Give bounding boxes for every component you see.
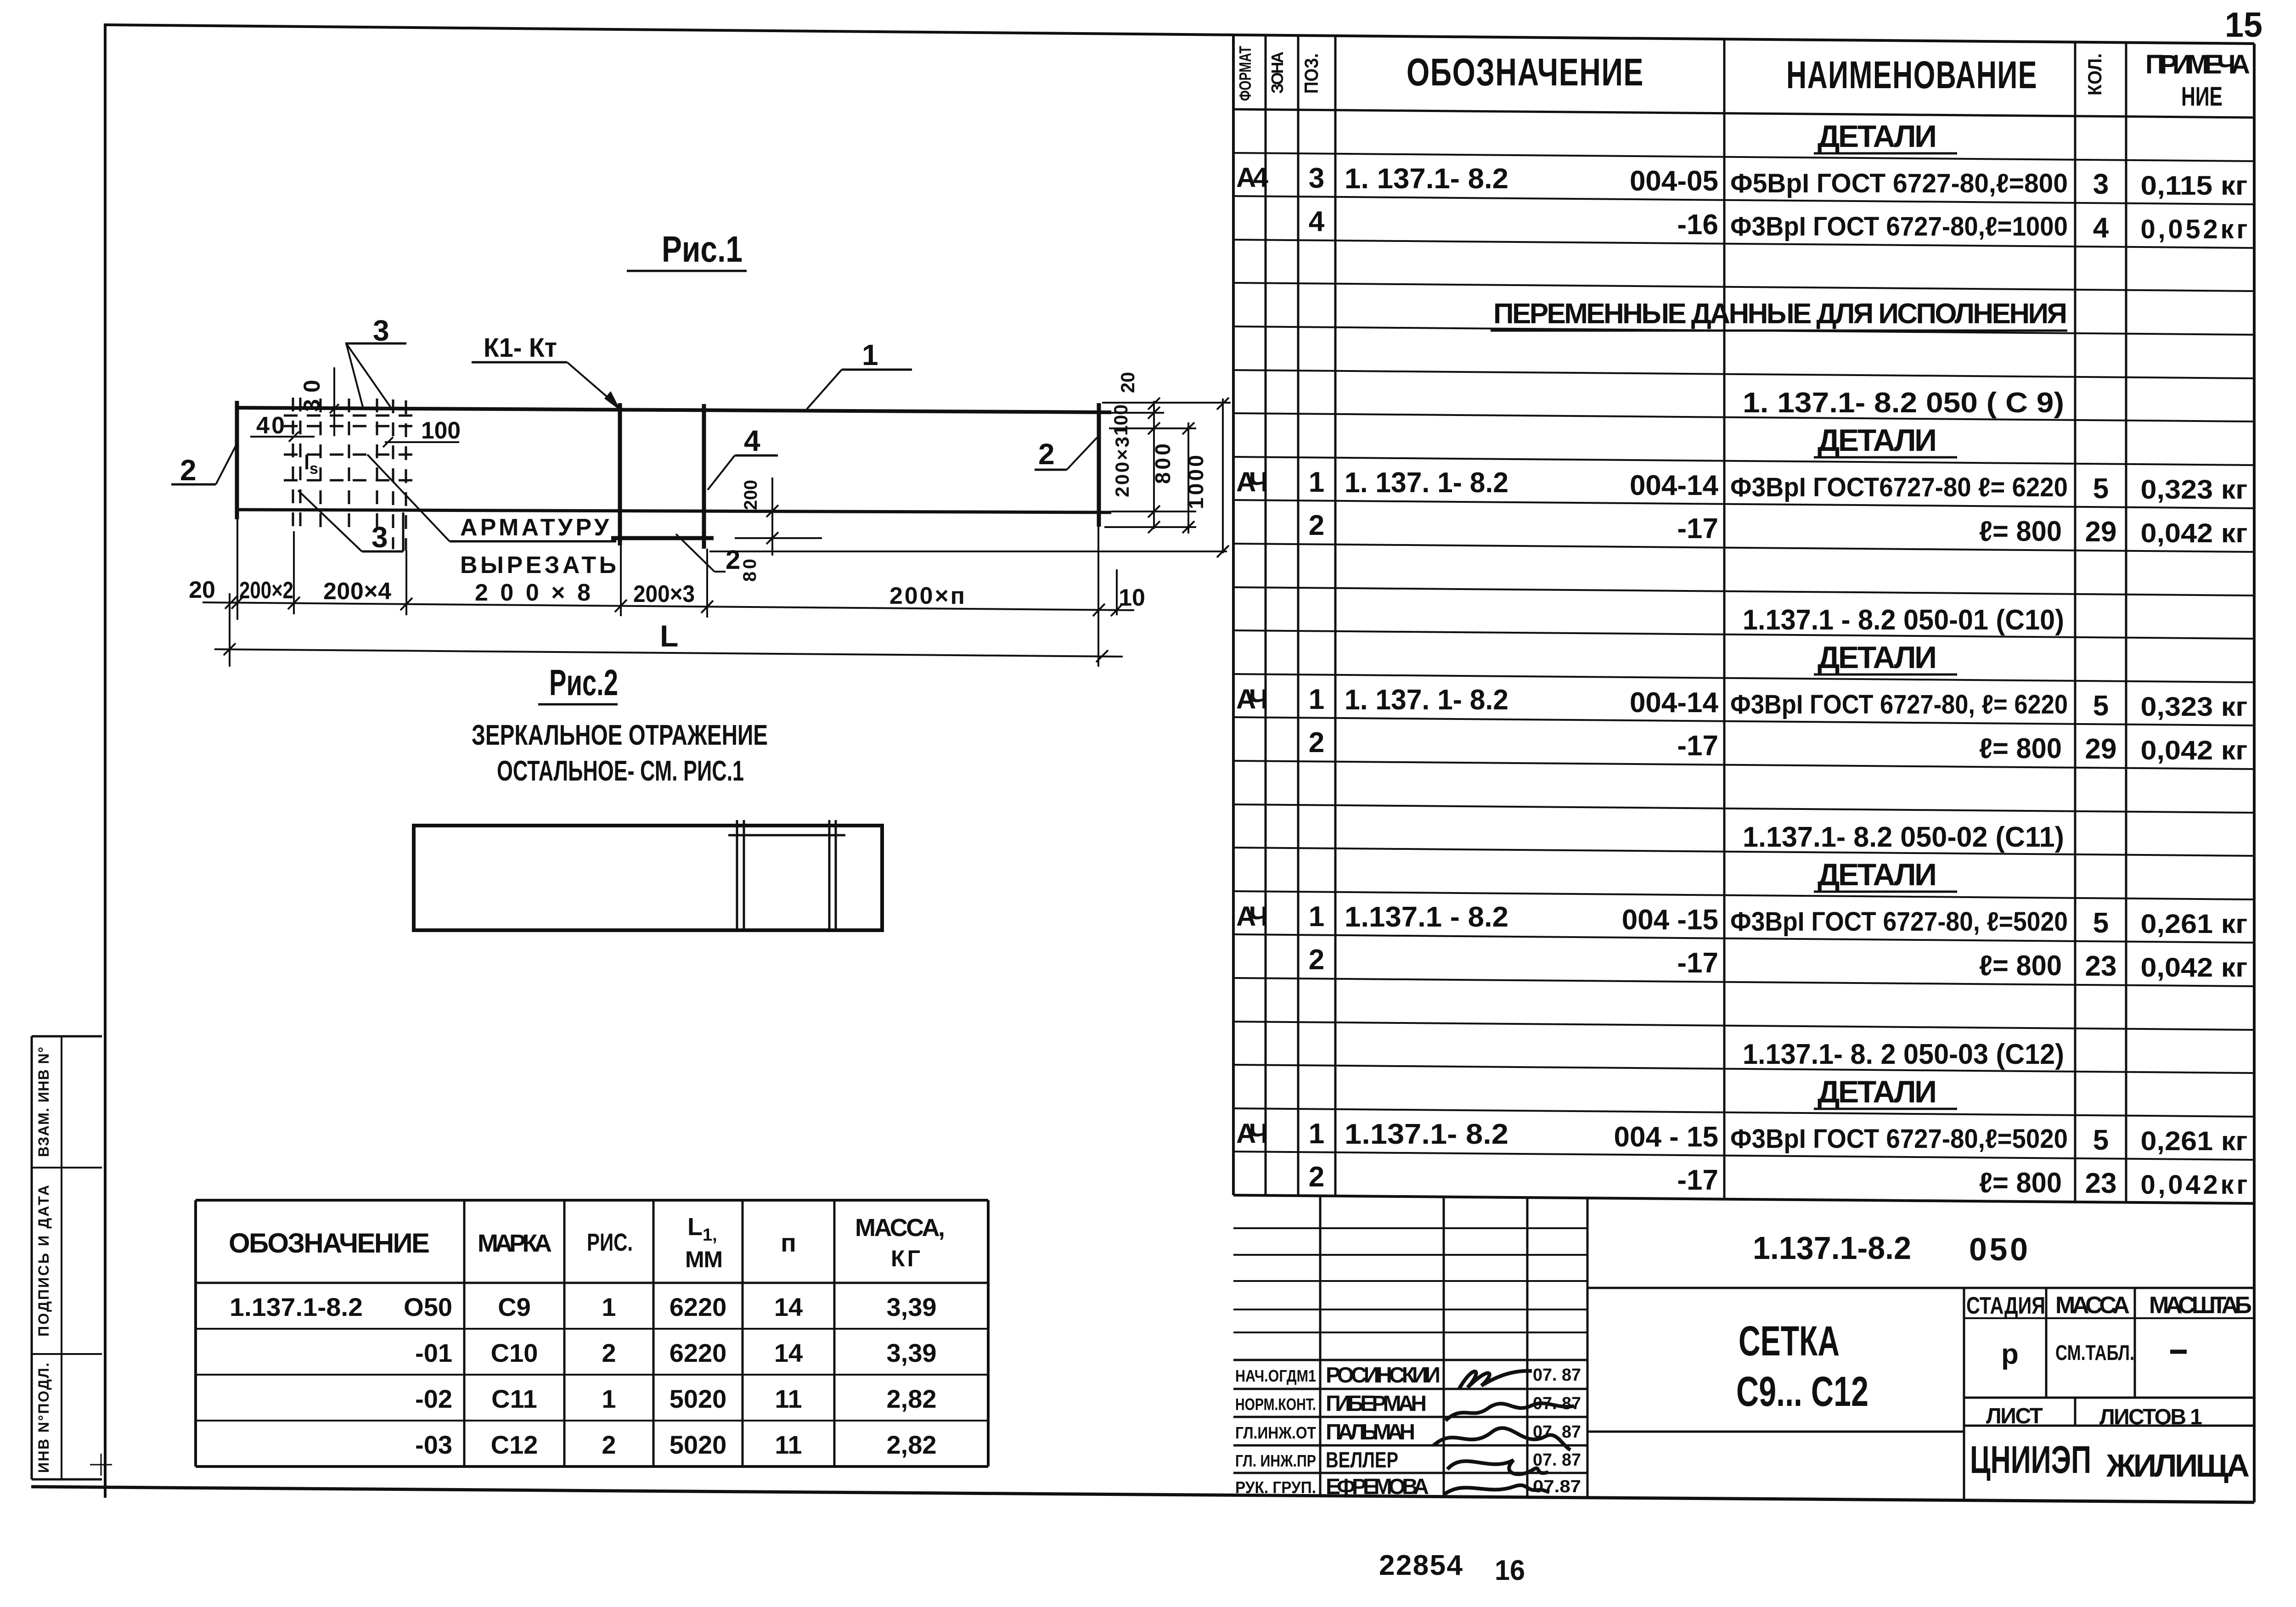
svg-text:ЗЕРКАЛЬНОЕ ОТРАЖЕНИЕ: ЗЕРКАЛЬНОЕ ОТРАЖЕНИЕ [472, 719, 768, 751]
left transverse wire (pos 2) [235, 401, 239, 519]
title block signature row rule [1233, 1388, 1587, 1390]
extension lines down to chain [229, 593, 231, 667]
svg-text:11: 11 [775, 1384, 802, 1413]
svg-text:100: 100 [421, 417, 461, 444]
svg-text:1.137.1-8.2: 1.137.1-8.2 [230, 1292, 363, 1321]
spec table row rule 7 [1233, 413, 2254, 421]
Рис.2 transverse wire pair 1 [736, 820, 738, 929]
title block upper row rule [1233, 1332, 1587, 1333]
Лист / Листов row [2074, 1398, 2077, 1426]
Стадия Масса Масштаб band [2045, 1288, 2048, 1398]
spec table row rule 2 [1233, 196, 2254, 204]
svg-text:2: 2 [1309, 727, 1324, 759]
svg-text:200: 200 [741, 480, 761, 510]
svg-text:2: 2 [180, 454, 197, 487]
spec table column rule x=4909 [2253, 44, 2256, 1502]
spec table row rule 24 [1233, 1152, 2254, 1160]
svg-text:2: 2 [1309, 1161, 1324, 1193]
svg-text:23: 23 [2085, 1168, 2117, 1199]
svg-text:40: 40 [256, 412, 285, 439]
svg-text:ВЕЛЛЕР: ВЕЛЛЕР [1326, 1448, 1398, 1472]
transverse wire K1 (middle) [618, 403, 622, 545]
svg-text:1: 1 [1309, 1118, 1324, 1150]
spec table row rule 5 [1233, 326, 2254, 335]
svg-text:АЧ: АЧ [1236, 901, 1268, 932]
svg-text:0,042 кг: 0,042 кг [2141, 736, 2248, 765]
svg-text:АЧ: АЧ [1236, 466, 1268, 497]
registration cross mark [90, 1464, 112, 1466]
spec table row rule 1 [1233, 153, 2254, 161]
svg-text:1: 1 [602, 1292, 616, 1321]
svg-text:ПАЛЬМАН: ПАЛЬМАН [1326, 1420, 1415, 1444]
svg-text:23: 23 [2085, 950, 2117, 982]
svg-text:20: 20 [1117, 372, 1138, 393]
svg-text:ПРИМЕЧА: ПРИМЕЧА [2145, 50, 2250, 79]
svg-text:ЛИСТОВ 1: ЛИСТОВ 1 [2099, 1405, 2202, 1429]
param table row rule [196, 1420, 988, 1422]
svg-text:1,: 1, [703, 1225, 717, 1245]
cut-out vertical wire x=821 [376, 399, 378, 529]
Рис.2 cut longitudinal bar [728, 834, 845, 837]
spec table row rule 11 [1233, 587, 2254, 596]
spec table column rule x=2686 [1232, 35, 1235, 1195]
svg-text:НАЧ.ОГДМ1: НАЧ.ОГДМ1 [1235, 1366, 1316, 1385]
spec table row rule 3 [1233, 240, 2254, 248]
transverse wire pos 4 [702, 404, 706, 549]
spec table row rule 22 [1233, 1065, 2254, 1073]
svg-text:050: 050 [1969, 1231, 2028, 1267]
svg-text:200×3: 200×3 [1111, 437, 1133, 497]
svg-text:200×3: 200×3 [633, 581, 695, 607]
right vertical dimension chain 20/100/800/80 [1153, 401, 1155, 529]
svg-text:3: 3 [373, 314, 389, 347]
svg-text:4: 4 [1309, 206, 1325, 237]
title block column x=3457 [1587, 1198, 1589, 1498]
spec table column rule x=2756 [1265, 35, 1267, 1196]
stamp strip divider 2 [32, 1353, 102, 1355]
svg-text:ОСТАЛЬНОЕ- СМ. РИС.1: ОСТАЛЬНОЕ- СМ. РИС.1 [497, 755, 744, 787]
svg-text:5: 5 [2093, 473, 2109, 505]
svg-text:0,042кг: 0,042кг [2141, 1170, 2248, 1200]
cut-out vertical wire x=638 [292, 398, 294, 533]
spec table column rule x=2908 [1334, 36, 1337, 1196]
param table bottom [196, 1465, 988, 1468]
cut-out vertical wire x=884 [405, 400, 407, 551]
spec table column rule x=4519 [2074, 42, 2077, 1202]
svg-text:С9: С9 [498, 1292, 531, 1321]
svg-text:1.137.1- 8.2 050-02 (С11): 1.137.1- 8.2 050-02 (С11) [1743, 821, 2064, 853]
title block upper row rule [1233, 1254, 1587, 1256]
svg-text:20: 20 [189, 577, 215, 603]
mesh top longitudinal wire (pos 1) [237, 408, 1111, 412]
spec table row rule 19 [1233, 934, 2254, 943]
svg-text:1. 137.1- 8.2 050 ( С 9): 1. 137.1- 8.2 050 ( С 9) [1743, 387, 2064, 419]
spec table header bottom rule [1233, 109, 2254, 118]
svg-text:Рис.1: Рис.1 [662, 229, 743, 270]
svg-text:-16: -16 [1677, 209, 1718, 241]
svg-text:5: 5 [2093, 907, 2109, 939]
svg-text:ЗОНА: ЗОНА [1268, 51, 1287, 94]
param table row rule [196, 1328, 988, 1330]
svg-text:ВЫРЕЗАТЬ: ВЫРЕЗАТЬ [460, 552, 616, 579]
title block signature row rule [1233, 1444, 1587, 1447]
small vertical dimension line 200/80 [771, 478, 773, 556]
svg-text:р: р [2001, 1338, 2019, 1370]
svg-text:ММ: ММ [685, 1247, 723, 1272]
svg-text:РОСИНСКИИ: РОСИНСКИИ [1326, 1363, 1441, 1388]
right dimension extension lines [1102, 402, 1231, 404]
svg-text:ГЛ.ИНЖ.ОТ: ГЛ.ИНЖ.ОТ [1235, 1423, 1316, 1442]
param table column x=426 [194, 1200, 197, 1467]
svg-text:004 -15: 004 -15 [1622, 904, 1718, 936]
svg-text:ℓ= 800: ℓ= 800 [1979, 516, 2062, 547]
svg-text:3: 3 [1309, 163, 1324, 194]
svg-text:ГЛ. ИНЖ.ПР: ГЛ. ИНЖ.ПР [1235, 1451, 1316, 1470]
Рис.2 mesh outline [414, 826, 882, 930]
svg-text:-02: -02 [415, 1384, 452, 1413]
svg-text:1.137.1 - 8.2 050-01 (С10): 1.137.1 - 8.2 050-01 (С10) [1743, 604, 2064, 636]
svg-text:С10: С10 [491, 1338, 538, 1367]
value dash (масштаб) [2170, 1350, 2187, 1354]
svg-text:1.137.1- 8. 2 050-03 (С12): 1.137.1- 8. 2 050-03 (С12) [1743, 1039, 2064, 1070]
svg-text:Ф3ВрI ГОСТ 6727-80,ℓ=5020: Ф3ВрI ГОСТ 6727-80,ℓ=5020 [1730, 1124, 2068, 1154]
title block signature rows top [1233, 1359, 1587, 1361]
svg-text:30: 30 [299, 373, 325, 412]
svg-text:15: 15 [2225, 6, 2262, 45]
right vertical dimension 1000 [1222, 399, 1224, 553]
svg-text:0,052кг: 0,052кг [2141, 214, 2248, 244]
sheet frame bottom border [31, 1487, 2254, 1502]
svg-text:22854: 22854 [1379, 1550, 1463, 1581]
title block column x=3144 [1443, 1197, 1445, 1497]
cut-out horizontal wire y=990 [284, 454, 413, 456]
svg-text:5: 5 [2093, 1124, 2109, 1156]
left stamp strip box [31, 1036, 33, 1479]
sheet frame left border [104, 25, 107, 1498]
svg-text:-17: -17 [1677, 513, 1718, 545]
svg-text:07. 87: 07. 87 [1533, 1450, 1581, 1470]
cut-out horizontal wire y=1046 [284, 479, 413, 482]
svg-text:ДЕТАЛИ: ДЕТАЛИ [1818, 640, 1939, 675]
svg-text:С9... С12: С9... С12 [1736, 1368, 1868, 1415]
param table column x=1617 [742, 1200, 744, 1467]
svg-text:РУК. ГРУП.: РУК. ГРУП. [1235, 1478, 1316, 1497]
spec table row rule 12 [1233, 630, 2254, 639]
cut-out vertical wire x=760 [348, 399, 350, 528]
param table column x=1817 [833, 1200, 836, 1467]
svg-text:ЖИЛИЩА: ЖИЛИЩА [2106, 1448, 2250, 1483]
svg-text:К1- Кт: К1- Кт [484, 333, 557, 363]
svg-text:L: L [660, 619, 678, 653]
svg-text:1: 1 [1309, 684, 1324, 715]
Сетка cell bottom rule [1587, 1431, 1964, 1433]
svg-text:ЛИСТ: ЛИСТ [1986, 1404, 2043, 1428]
handwritten signatures [1459, 1371, 1532, 1388]
param table row rule [196, 1374, 988, 1376]
svg-text:ПЕРЕМЕННЫЕ ДАННЫЕ ДЛЯ ИСПОЛ: ПЕРЕМЕННЫЕ ДАННЫЕ ДЛЯ ИСПОЛНЕНИЯ [1493, 298, 2067, 330]
cut-out vertical wire x=856 [392, 399, 394, 549]
svg-text:0,323 кг: 0,323 кг [2141, 692, 2248, 722]
svg-text:2: 2 [1309, 944, 1324, 976]
svg-text:А4: А4 [1236, 162, 1269, 193]
spec table row rule 23 [1233, 1108, 2254, 1117]
svg-text:14: 14 [774, 1338, 803, 1367]
svg-text:ВЗАМ. ИНВ N°: ВЗАМ. ИНВ N° [35, 1047, 52, 1157]
svg-text:ДЕТАЛИ: ДЕТАЛИ [1818, 423, 1939, 458]
title block column x=3326 [1526, 1197, 1529, 1497]
svg-text:1. 137.1- 8.2: 1. 137.1- 8.2 [1345, 163, 1508, 195]
svg-text:29: 29 [2085, 516, 2117, 548]
svg-text:5: 5 [2093, 690, 2109, 722]
svg-text:ДЕТАЛИ: ДЕТАЛИ [1818, 857, 1939, 892]
svg-text:-17: -17 [1677, 1164, 1718, 1196]
svg-text:-17: -17 [1677, 730, 1718, 762]
svg-text:СТАДИЯ: СТАДИЯ [1966, 1292, 2045, 1319]
svg-text:МАССА: МАССА [2055, 1292, 2130, 1319]
Рис.2 transverse wire pair 2 [828, 820, 831, 929]
overall length dimension L [214, 649, 1123, 657]
svg-text:80: 80 [740, 559, 760, 582]
svg-text:1.137.1 - 8.2: 1.137.1 - 8.2 [1345, 901, 1508, 933]
svg-text:l: l [304, 451, 310, 474]
spec table bottom / title block top [1233, 1195, 2254, 1203]
right vertical dimension 800 [1187, 422, 1189, 534]
svg-text:ℓ= 800: ℓ= 800 [1979, 1167, 2062, 1199]
svg-text:0,261 кг: 0,261 кг [2141, 1126, 2248, 1156]
svg-text:ЦНИИЭП: ЦНИИЭП [1970, 1438, 2091, 1481]
svg-text:s: s [310, 460, 318, 478]
svg-text:1: 1 [602, 1384, 616, 1413]
svg-text:АЧ: АЧ [1236, 1118, 1268, 1149]
cut-out horizontal wire y=928 [284, 425, 413, 427]
param table header bottom [196, 1282, 988, 1284]
svg-text:3: 3 [2093, 169, 2109, 200]
sheet frame top border [104, 25, 1234, 35]
svg-text:АРМАТУРУ: АРМАТУРУ [460, 514, 609, 541]
spec table row rule 13 [1233, 674, 2254, 682]
svg-text:2: 2 [602, 1430, 616, 1459]
svg-text:2: 2 [726, 545, 740, 575]
svg-text:Ф5ВрI ГОСТ 6727-80,ℓ=800: Ф5ВрI ГОСТ 6727-80,ℓ=800 [1730, 169, 2068, 198]
spec table row rule 17 [1233, 848, 2254, 856]
svg-text:16: 16 [1495, 1555, 1525, 1586]
cut-out horizontal wire y=905 [284, 415, 413, 417]
svg-text:L: L [687, 1213, 703, 1241]
spec table column rule x=4630 [2125, 43, 2127, 1202]
svg-text:3,39: 3,39 [887, 1292, 937, 1321]
title block upper row rule [1233, 1227, 1587, 1229]
svg-text:ПОЗ.: ПОЗ. [1300, 53, 1322, 94]
svg-text:0,323 кг: 0,323 кг [2141, 475, 2248, 505]
svg-text:004-05: 004-05 [1630, 165, 1718, 197]
spec table column rule x=2827 [1297, 35, 1300, 1196]
svg-text:3: 3 [371, 521, 388, 554]
svg-text:2: 2 [602, 1338, 616, 1367]
svg-text:КГ: КГ [891, 1246, 920, 1271]
svg-text:МАРКА: МАРКА [478, 1230, 552, 1257]
right transverse wire (pos 2) [1097, 403, 1101, 527]
svg-text:004-14: 004-14 [1630, 687, 1719, 719]
mesh bottom longitudinal wire [237, 510, 1111, 512]
cut-out vertical wire x=654 [299, 398, 302, 533]
stamp strip divider 1 [32, 1167, 102, 1169]
svg-text:0,042 кг: 0,042 кг [2141, 953, 2248, 983]
title block signature row rule [1233, 1472, 1587, 1474]
spec table row rule 20 [1233, 978, 2254, 986]
svg-text:1: 1 [862, 338, 878, 371]
svg-text:1. 137. 1- 8.2: 1. 137. 1- 8.2 [1345, 467, 1508, 499]
spec table row rule 8 [1233, 457, 2254, 465]
extension line cut bar level [735, 537, 822, 539]
svg-text:5020: 5020 [670, 1430, 727, 1459]
spec table row rule 15 [1233, 761, 2254, 769]
spec table row rule 6 [1233, 370, 2254, 378]
svg-text:Рис.2: Рис.2 [549, 662, 618, 703]
bottom dimension chain [203, 602, 1134, 610]
svg-text:0,115 кг: 0,115 кг [2141, 171, 2248, 201]
cut-out vertical wire x=698 [320, 399, 322, 528]
svg-text:ПОДПИСЬ И ДАТА: ПОДПИСЬ И ДАТА [35, 1185, 52, 1337]
svg-text:-03: -03 [415, 1430, 452, 1459]
svg-text:29: 29 [2085, 733, 2117, 765]
svg-text:1.137.1-8.2: 1.137.1-8.2 [1753, 1230, 1911, 1266]
svg-text:200×п: 200×п [889, 583, 965, 609]
svg-text:1: 1 [1309, 466, 1324, 498]
svg-text:НАИМЕНОВАНИЕ: НАИМЕНОВАНИЕ [1786, 53, 2037, 96]
svg-text:1.137.1- 8.2: 1.137.1- 8.2 [1345, 1118, 1508, 1150]
param table top [196, 1199, 988, 1202]
svg-text:100: 100 [1110, 405, 1131, 436]
svg-text:ОБОЗНАЧЕНИЕ: ОБОЗНАЧЕНИЕ [229, 1228, 431, 1259]
spec table row rule 10 [1233, 544, 2254, 552]
svg-text:2,82: 2,82 [887, 1384, 937, 1413]
svg-text:11: 11 [775, 1430, 802, 1459]
svg-text:СЕТКА: СЕТКА [1739, 1318, 1840, 1365]
svg-text:СМ.ТАБЛ.: СМ.ТАБЛ. [2055, 1341, 2134, 1365]
param table column x=1229 [563, 1200, 566, 1467]
svg-text:10: 10 [1119, 584, 1145, 611]
svg-text:5020: 5020 [670, 1384, 727, 1413]
svg-text:200×2: 200×2 [239, 577, 293, 604]
svg-text:1. 137. 1- 8.2: 1. 137. 1- 8.2 [1345, 684, 1508, 716]
svg-text:200×4: 200×4 [323, 578, 391, 605]
svg-text:Ф3ВрI ГОСТ 6727-80, ℓ= 6220: Ф3ВрI ГОСТ 6727-80, ℓ= 6220 [1730, 690, 2068, 719]
svg-text:Ф3ВрI ГОСТ6727-80 ℓ= 6220: Ф3ВрI ГОСТ6727-80 ℓ= 6220 [1730, 472, 2068, 502]
svg-text:С11: С11 [491, 1384, 537, 1413]
title block upper row rule [1233, 1280, 1587, 1282]
svg-text:2,82: 2,82 [887, 1430, 937, 1459]
svg-text:6220: 6220 [670, 1292, 727, 1321]
svg-text:МАССА,: МАССА, [855, 1214, 945, 1242]
svg-text:Ф3ВрI ГОСТ 6727-80,ℓ=1000: Ф3ВрI ГОСТ 6727-80,ℓ=1000 [1730, 212, 2068, 242]
svg-text:МАСШТАБ: МАСШТАБ [2149, 1292, 2252, 1319]
spec table top edge [1233, 35, 2254, 44]
svg-text:ГИБЕРМАН: ГИБЕРМАН [1326, 1392, 1427, 1416]
svg-text:ℓ= 800: ℓ= 800 [1979, 950, 2062, 982]
svg-text:07. 87: 07. 87 [1533, 1365, 1581, 1385]
svg-text:С12: С12 [491, 1430, 538, 1459]
svg-text:КОЛ.: КОЛ. [2084, 53, 2105, 96]
svg-text:3,39: 3,39 [887, 1338, 937, 1367]
param table column x=2152 [987, 1200, 990, 1467]
param table column x=1423 [653, 1200, 655, 1467]
svg-text:ФОРМАТ: ФОРМАТ [1236, 46, 1255, 101]
values row bottom rule [1964, 1397, 2254, 1399]
svg-text:НИЕ: НИЕ [2181, 82, 2223, 112]
spec table row rule 4 [1233, 283, 2254, 291]
svg-text:-17: -17 [1677, 947, 1718, 979]
cut longitudinal bar (pos 2, bottom) [611, 536, 714, 540]
svg-text:НОРМ.КОНТ.: НОРМ.КОНТ. [1235, 1395, 1316, 1414]
svg-text:800: 800 [1151, 444, 1175, 484]
svg-text:200×8: 200×8 [475, 579, 591, 606]
svg-text:АЧ: АЧ [1236, 684, 1268, 714]
spec table row rule 16 [1233, 804, 2254, 813]
svg-text:1: 1 [1309, 901, 1324, 933]
svg-text:07.87: 07.87 [1533, 1477, 1581, 1496]
svg-text:ДЕТАЛИ: ДЕТАЛИ [1818, 119, 1939, 154]
svg-text:4: 4 [744, 424, 760, 457]
svg-text:004-14: 004-14 [1630, 470, 1719, 501]
svg-text:-01: -01 [415, 1338, 452, 1367]
svg-text:1000: 1000 [1184, 455, 1208, 509]
svg-text:2: 2 [1038, 438, 1055, 471]
svg-text:О50: О50 [404, 1292, 452, 1321]
spec table row rule 14 [1233, 717, 2254, 725]
svg-text:ИНВ N°ПОДЛ.: ИНВ N°ПОДЛ. [35, 1363, 52, 1473]
svg-text:14: 14 [774, 1292, 803, 1321]
doc number cell bottom rule [1587, 1287, 2254, 1289]
svg-text:0,042 кг: 0,042 кг [2141, 518, 2248, 548]
spec table row rule 21 [1233, 1022, 2254, 1030]
spec table row rule 9 [1233, 500, 2254, 508]
svg-text:п: п [781, 1228, 796, 1257]
svg-text:6220: 6220 [670, 1338, 727, 1367]
svg-text:Ф3ВрI ГОСТ 6727-80, ℓ=5020: Ф3ВрI ГОСТ 6727-80, ℓ=5020 [1730, 907, 2068, 937]
param table column x=1011 [463, 1200, 466, 1467]
svg-text:004 - 15: 004 - 15 [1614, 1121, 1718, 1153]
spec table row rule 18 [1233, 891, 2254, 899]
title block upper row rule [1233, 1309, 1587, 1310]
svg-text:ℓ= 800: ℓ= 800 [1979, 733, 2062, 764]
title block right section left rule [1963, 1288, 1965, 1500]
svg-text:ЕФРЕМОВА: ЕФРЕМОВА [1326, 1475, 1429, 1499]
svg-text:4: 4 [2093, 212, 2109, 244]
title block column x=2875 [1319, 1196, 1322, 1496]
spec table column rule x=3755 [1723, 39, 1726, 1199]
svg-text:0,261 кг: 0,261 кг [2141, 909, 2248, 939]
svg-text:ОБОЗНАЧЕНИЕ: ОБОЗНАЧЕНИЕ [1407, 51, 1644, 94]
svg-text:ДЕТАЛИ: ДЕТАЛИ [1818, 1074, 1939, 1109]
svg-text:2: 2 [1309, 510, 1324, 541]
title block signature row rule [1233, 1416, 1587, 1418]
svg-text:РИС.: РИС. [587, 1229, 633, 1256]
